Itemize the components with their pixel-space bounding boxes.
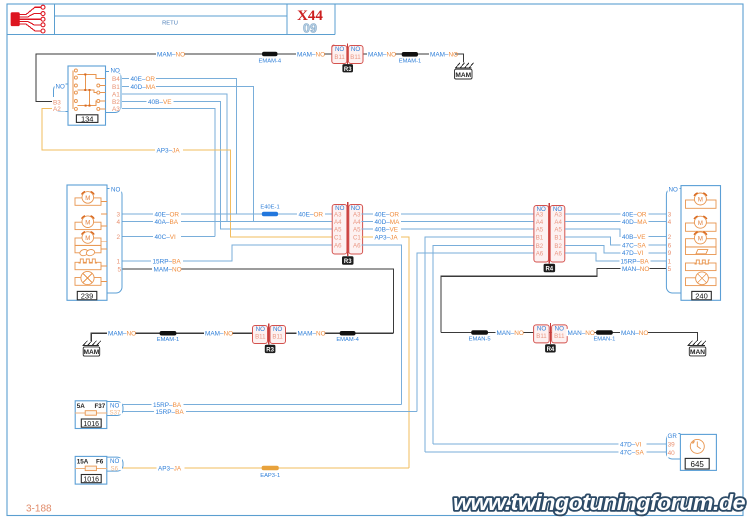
svg-text:B2: B2 bbox=[536, 243, 544, 250]
svg-text:MAM–NO: MAM–NO bbox=[108, 331, 136, 338]
svg-text:A5: A5 bbox=[334, 226, 342, 233]
wire label 47D-VI bbox=[619, 440, 647, 448]
wire net 40B from 134.B2 down to K3.A5 row bbox=[122, 102, 332, 230]
wire net 15RP K4.A6 jog to 248.1 bbox=[565, 253, 667, 261]
svg-text:5A: 5A bbox=[77, 403, 86, 410]
component 239 label bbox=[77, 291, 97, 299]
wire net 40B K4.A5 jog to 248.2 bbox=[565, 229, 667, 237]
svg-text:4: 4 bbox=[116, 219, 120, 226]
component 134 internal switch circuit bbox=[73, 69, 106, 110]
splice EMAN-1 bbox=[596, 330, 613, 335]
svg-text:1016: 1016 bbox=[83, 477, 99, 484]
svg-text:40E–OR: 40E–OR bbox=[155, 211, 180, 218]
svg-text:9: 9 bbox=[668, 250, 672, 257]
wire label MAM-NO bbox=[297, 330, 326, 338]
svg-text:EMAM-4: EMAM-4 bbox=[259, 58, 282, 64]
svg-text:15RP–BA: 15RP–BA bbox=[153, 402, 182, 409]
svg-text:B11: B11 bbox=[272, 334, 283, 341]
wire net 40E from 134.B4 down to splice row bbox=[122, 79, 237, 215]
svg-text:A4: A4 bbox=[536, 219, 544, 226]
svg-text:MAN–NO: MAN–NO bbox=[497, 330, 524, 337]
wire label AP3-JA after K3 bbox=[373, 233, 401, 241]
svg-text:15RP–BA: 15RP–BA bbox=[153, 258, 182, 265]
svg-text:40E–OR: 40E–OR bbox=[131, 76, 156, 83]
svg-text:A5: A5 bbox=[536, 226, 544, 233]
wire label AP3-JA bbox=[157, 464, 185, 472]
connector K4 (A3 A4 A5 B1 B2 A6) bbox=[534, 203, 565, 264]
svg-text:645: 645 bbox=[691, 460, 705, 469]
connector bracket NO right of 134 (pins B4 B1 A1 B2 A3) bbox=[106, 67, 122, 113]
wire net 47D K4.B2 jog to 248.9 bbox=[565, 246, 667, 253]
component 134 label bbox=[76, 115, 98, 123]
svg-text:40A–BA: 40A–BA bbox=[155, 219, 179, 226]
svg-text:R4: R4 bbox=[545, 267, 553, 273]
wire label 40E-OR after K3 bbox=[373, 210, 401, 218]
svg-text:15RP–BA: 15RP–BA bbox=[156, 409, 185, 416]
svg-text:B4: B4 bbox=[112, 76, 120, 83]
svg-text:AP3–JA: AP3–JA bbox=[157, 147, 181, 154]
connector icon R3 bottom-left bbox=[265, 345, 276, 354]
svg-text:A6: A6 bbox=[353, 242, 361, 249]
svg-text:3: 3 bbox=[116, 211, 120, 218]
component 248 motor 1 bbox=[686, 193, 717, 208]
svg-text:NO: NO bbox=[537, 326, 546, 333]
component 134 box bbox=[68, 66, 106, 125]
svg-text:NO: NO bbox=[56, 84, 65, 91]
svg-text:A3: A3 bbox=[353, 211, 361, 218]
connector bracket right of F37 (pins NO S37) bbox=[107, 402, 123, 417]
splice EMAM-1 bbox=[402, 52, 418, 57]
wire label MAN-NO bbox=[567, 329, 595, 337]
wire label MAM-NO bbox=[156, 49, 185, 59]
component 239 fan element bbox=[75, 245, 101, 256]
wire net 40C row 239.2 bbox=[122, 236, 215, 238]
component 248 thermal contact bbox=[686, 247, 717, 255]
svg-text:1: 1 bbox=[668, 258, 672, 265]
connector K3 (A3 A4 A5 C1 A6) bbox=[332, 202, 362, 256]
wire net 47D from K4.B2 down to 645 row bbox=[433, 246, 534, 445]
wire net 15RP fuse F37.S37 row bbox=[123, 411, 417, 413]
svg-text:R3: R3 bbox=[266, 348, 274, 354]
wire net 47D row to 645.39 bbox=[433, 443, 666, 445]
wire label MAM-NO bbox=[296, 49, 325, 59]
component 248 label bbox=[692, 291, 712, 299]
svg-text:47C–SA: 47C–SA bbox=[622, 242, 647, 249]
connector R3 top (B11|B11) bbox=[332, 44, 363, 65]
connector bracket left of 645 (pins GR 39 40) bbox=[666, 432, 680, 459]
svg-text:09: 09 bbox=[303, 22, 317, 36]
logo harness icon bbox=[11, 5, 45, 33]
svg-text:MAM–NO: MAM–NO bbox=[154, 266, 182, 273]
svg-text:EMAM-1: EMAM-1 bbox=[399, 58, 422, 64]
svg-text:B2: B2 bbox=[554, 243, 562, 250]
wire label 15RP-BA bbox=[151, 257, 183, 265]
svg-text:240: 240 bbox=[695, 292, 708, 301]
watermark www.twingotuningforum.de bbox=[453, 490, 745, 515]
component 645 box bbox=[680, 434, 716, 470]
wire label 40E-OR before K3 bbox=[297, 210, 325, 218]
svg-text:NO: NO bbox=[555, 326, 564, 333]
wire net 15RP from fuse F37.S37 up to K4.A6 bbox=[417, 253, 534, 412]
svg-text:M: M bbox=[85, 220, 90, 226]
svg-text:M: M bbox=[85, 196, 90, 202]
svg-text:MAM–NO: MAM–NO bbox=[297, 51, 325, 58]
wire label MAM-NO bbox=[429, 49, 458, 59]
svg-text:40D–MA: 40D–MA bbox=[375, 219, 401, 226]
wire net 15RP from K3.A6 down to fuse F37.NO row bbox=[362, 245, 402, 405]
svg-text:B1: B1 bbox=[554, 234, 562, 241]
component 239 motor 3 bbox=[75, 232, 101, 246]
wire net 40D K3 to K4 bbox=[362, 221, 534, 223]
svg-text:MAM: MAM bbox=[455, 72, 471, 79]
wire net AP3 from K3.C1 down to fuse F6 row bbox=[362, 237, 410, 468]
svg-text:A3: A3 bbox=[554, 211, 562, 218]
svg-text:A6: A6 bbox=[554, 250, 562, 257]
wire net 47C row to 645.40 bbox=[425, 451, 666, 453]
svg-text:A5: A5 bbox=[353, 226, 361, 233]
splice EMAM-4 bottom bbox=[340, 331, 356, 336]
svg-text:R3: R3 bbox=[344, 259, 352, 265]
wire label 40A-BA bbox=[153, 218, 181, 226]
svg-text:A3: A3 bbox=[536, 211, 544, 218]
wire label 40D-MA bbox=[129, 83, 156, 91]
svg-text:1: 1 bbox=[116, 258, 120, 265]
component 239 motor 2 bbox=[75, 216, 101, 230]
wire AP3 orange from 134.A2 bbox=[42, 109, 332, 238]
svg-text:B11: B11 bbox=[334, 54, 345, 61]
component 248 lamp bbox=[686, 272, 717, 286]
svg-text:NO: NO bbox=[111, 187, 120, 194]
svg-text:NO: NO bbox=[273, 326, 282, 333]
wire net 15RP row 239.1 bbox=[122, 245, 332, 261]
component 239 box bbox=[67, 185, 107, 300]
ground MAM top bbox=[455, 63, 474, 79]
wire label 40D-MA after K3 bbox=[373, 218, 401, 226]
wire label 40D-MA before 248 bbox=[621, 218, 649, 226]
wire net AP3 fuse F6 row bbox=[123, 467, 409, 469]
svg-text:47D–VI: 47D–VI bbox=[622, 250, 644, 257]
svg-text:A6: A6 bbox=[536, 250, 544, 257]
svg-text:47D–VI: 47D–VI bbox=[620, 441, 642, 448]
wire MAM bottom row bbox=[91, 333, 393, 341]
component 248 motor 3 bbox=[686, 232, 717, 247]
svg-text:S37: S37 bbox=[110, 410, 121, 417]
splice EAP3-1 bbox=[262, 466, 279, 471]
svg-text:GR: GR bbox=[668, 433, 678, 440]
connector icon R4 bottom-right bbox=[545, 344, 556, 353]
ground MAM bottom bbox=[82, 341, 101, 357]
svg-text:39: 39 bbox=[668, 442, 676, 449]
wire net 40C from 134.A3 down bbox=[122, 109, 215, 237]
wire net MAM row 239.5 bbox=[122, 269, 393, 333]
svg-text:239: 239 bbox=[81, 292, 94, 301]
svg-text:C1: C1 bbox=[353, 234, 361, 241]
svg-text:47C–SA: 47C–SA bbox=[620, 450, 645, 457]
svg-text:R4: R4 bbox=[547, 347, 555, 353]
svg-text:A1: A1 bbox=[112, 91, 120, 98]
svg-text:F6: F6 bbox=[96, 459, 104, 466]
connector bottom-right (B11|B11) bbox=[534, 323, 568, 344]
wire net MAN from 248.5 bbox=[441, 269, 666, 333]
svg-text:EAP3-1: EAP3-1 bbox=[260, 473, 280, 479]
wire label MAM-NO bbox=[152, 265, 182, 273]
svg-text:EMAM-4: EMAM-4 bbox=[336, 337, 359, 343]
svg-text:A3: A3 bbox=[334, 211, 342, 218]
wire label MAM-NO bbox=[204, 330, 233, 338]
wire label 40C-VI bbox=[153, 233, 181, 241]
wire label MAN-NO bbox=[496, 329, 524, 337]
svg-text:2: 2 bbox=[116, 234, 120, 241]
wire MAN bottom row bbox=[441, 333, 697, 342]
wire label 47D-VI before 248 bbox=[621, 249, 649, 257]
wire label 15RP-BA bbox=[154, 408, 186, 416]
svg-text:15A: 15A bbox=[77, 459, 89, 466]
fuse F6 (15A) bbox=[75, 456, 107, 484]
svg-text:S6: S6 bbox=[111, 465, 119, 472]
svg-text:M: M bbox=[698, 237, 703, 243]
component 645 clock symbol bbox=[690, 439, 704, 453]
svg-text:NO: NO bbox=[351, 46, 360, 53]
connector icon R3 under K3 bbox=[342, 256, 354, 265]
svg-text:40D–MA: 40D–MA bbox=[131, 84, 157, 91]
wire label 40E-OR bbox=[153, 210, 181, 218]
svg-text:www.twingotuningforum.de: www.twingotuningforum.de bbox=[453, 490, 745, 515]
svg-text:MAM–NO: MAM–NO bbox=[205, 331, 233, 338]
wire net 40D from 134.B1 down to K3.A4 row bbox=[122, 87, 254, 222]
svg-text:40D–MA: 40D–MA bbox=[622, 219, 648, 226]
splice EMAM-4 bbox=[262, 52, 278, 57]
wire label 40E-OR bbox=[129, 75, 156, 83]
component 248 box bbox=[681, 186, 721, 301]
svg-text:40E–OR: 40E–OR bbox=[622, 211, 647, 218]
connector bottom-left (B11|B11) bbox=[253, 324, 286, 345]
svg-text:6: 6 bbox=[668, 242, 672, 249]
wire net 40B K3 to K4 bbox=[362, 228, 534, 230]
svg-text:MAN–NO: MAN–NO bbox=[568, 330, 595, 337]
connector bracket right of F6 (pins NO S6) bbox=[107, 457, 123, 472]
wire label 40E-OR before 248 bbox=[621, 210, 649, 218]
component 248 motor 2 bbox=[686, 216, 717, 231]
wire net 15RP fuse F37.NO row bbox=[123, 404, 402, 406]
svg-text:RETU: RETU bbox=[162, 21, 178, 27]
svg-text:40B–VE: 40B–VE bbox=[622, 234, 645, 241]
wire net 40A from 134.A1 down bbox=[122, 94, 227, 222]
svg-text:40: 40 bbox=[668, 450, 676, 457]
svg-text:134: 134 bbox=[81, 114, 94, 123]
component 239 motor 1 bbox=[75, 192, 101, 206]
svg-text:B11: B11 bbox=[554, 333, 565, 340]
svg-text:40B–VE: 40B–VE bbox=[148, 99, 171, 106]
svg-text:B11: B11 bbox=[536, 333, 547, 340]
svg-text:B11: B11 bbox=[350, 54, 361, 61]
wire label MAN-NO bbox=[620, 329, 648, 337]
wire label 15RP-BA bbox=[152, 401, 184, 409]
svg-text:MAN–NO: MAN–NO bbox=[622, 266, 649, 273]
wire MAM top row bbox=[36, 54, 464, 102]
svg-text:40E–OR: 40E–OR bbox=[375, 211, 400, 218]
svg-text:NO: NO bbox=[335, 46, 344, 53]
svg-text:3-188: 3-188 bbox=[26, 504, 52, 515]
svg-text:MAM–NO: MAM–NO bbox=[298, 331, 326, 338]
connector bracket NO right of 239 (pins 3 4 2 1 5) bbox=[107, 186, 122, 293]
connector bracket NO left of 134 (pins B3 A2) bbox=[53, 83, 69, 113]
svg-text:A3: A3 bbox=[112, 106, 120, 113]
svg-text:NO: NO bbox=[111, 68, 120, 75]
svg-text:40E–OR: 40E–OR bbox=[299, 211, 324, 218]
wire label 40B-VE before 248 bbox=[621, 233, 649, 241]
svg-text:2: 2 bbox=[668, 234, 672, 241]
svg-text:NO: NO bbox=[110, 403, 119, 410]
wire label MAN-NO before 248 bbox=[621, 265, 650, 273]
svg-text:A4: A4 bbox=[353, 219, 361, 226]
wire label 40B-VE bbox=[147, 98, 174, 106]
svg-text:F37: F37 bbox=[94, 403, 105, 410]
svg-text:4: 4 bbox=[668, 219, 672, 226]
svg-text:A4: A4 bbox=[554, 219, 562, 226]
svg-text:R3: R3 bbox=[344, 67, 352, 73]
wire label MAM-NO bbox=[367, 49, 396, 59]
svg-text:5: 5 bbox=[668, 266, 672, 273]
component 239 lamp bbox=[75, 271, 101, 285]
splice EMAN-5 bbox=[471, 330, 488, 335]
svg-text:C1: C1 bbox=[334, 234, 342, 241]
component 239 resistor bbox=[75, 259, 101, 270]
wire net 40A row 239.4 to K3.A4 bbox=[122, 221, 332, 223]
svg-text:5: 5 bbox=[117, 266, 121, 273]
svg-text:B2: B2 bbox=[112, 99, 120, 106]
svg-text:15RP–BA: 15RP–BA bbox=[621, 258, 650, 265]
svg-text:A4: A4 bbox=[334, 219, 342, 226]
svg-text:40C–VI: 40C–VI bbox=[155, 234, 177, 241]
svg-text:B1: B1 bbox=[536, 234, 544, 241]
svg-text:M: M bbox=[698, 221, 703, 227]
svg-text:EMAN-1: EMAN-1 bbox=[593, 337, 615, 343]
svg-text:MAM–NO: MAM–NO bbox=[430, 51, 458, 58]
svg-text:AP3–JA: AP3–JA bbox=[158, 465, 182, 472]
wire net 40D K4 to 248.4 bbox=[565, 221, 667, 223]
connector bracket NO left of 248 (pins 3 4 2 6 9 1 5) bbox=[666, 186, 681, 293]
wire label 47C-SA bbox=[619, 449, 647, 457]
svg-text:MAM: MAM bbox=[84, 349, 100, 356]
wire net 47C K4.B1 jog to 248.6 bbox=[565, 237, 667, 245]
ground MAN bottom bbox=[688, 341, 707, 356]
fuse F37 (5A) bbox=[75, 401, 107, 429]
wire label MAM-NO bbox=[107, 330, 136, 338]
svg-text:MAM–NO: MAM–NO bbox=[157, 51, 185, 58]
component 248 resistor bbox=[686, 260, 717, 271]
svg-text:M: M bbox=[698, 198, 703, 204]
wire label 47C-SA before 248 bbox=[621, 241, 649, 249]
wire label AP3-JA bbox=[155, 146, 183, 154]
svg-text:40B–VE: 40B–VE bbox=[375, 226, 398, 233]
svg-text:NO: NO bbox=[669, 187, 678, 194]
wire net 40E K3 to K4 bbox=[362, 213, 534, 215]
splice E40E-1 bbox=[262, 212, 278, 217]
svg-text:A2: A2 bbox=[53, 106, 61, 113]
svg-text:NO: NO bbox=[110, 458, 119, 465]
wire label 40B-VE after K3 bbox=[373, 225, 401, 233]
svg-text:B1: B1 bbox=[112, 84, 120, 91]
wire net 47C from K4.B1 down to 645 row bbox=[425, 237, 534, 452]
wire label 15RP-BA before 248 bbox=[620, 257, 651, 265]
svg-text:EMAN-5: EMAN-5 bbox=[469, 337, 491, 343]
wire net 40E K4 to 248.3 bbox=[565, 213, 667, 215]
connector icon R4 under K4 bbox=[544, 264, 556, 273]
svg-text:A5: A5 bbox=[554, 226, 562, 233]
svg-text:1016: 1016 bbox=[83, 421, 99, 428]
component 239 internal stubs bbox=[101, 202, 107, 282]
svg-text:M: M bbox=[85, 236, 90, 242]
wire net 40E row 239.3 to K3.A3 bbox=[122, 213, 332, 215]
svg-text:A6: A6 bbox=[334, 242, 342, 249]
connector icon R3 top bbox=[342, 64, 353, 73]
svg-text:MAM–NO: MAM–NO bbox=[368, 51, 396, 58]
svg-text:E40E-1: E40E-1 bbox=[260, 205, 279, 211]
svg-text:MAN–NO: MAN–NO bbox=[621, 330, 648, 337]
splice EMAM-1 bottom bbox=[160, 331, 177, 336]
component 645 label bbox=[685, 458, 709, 469]
svg-text:B11: B11 bbox=[255, 334, 266, 341]
svg-text:NO: NO bbox=[256, 326, 265, 333]
svg-text:3: 3 bbox=[668, 211, 672, 218]
svg-text:EMAM-1: EMAM-1 bbox=[157, 337, 180, 343]
svg-text:AP3–JA: AP3–JA bbox=[375, 234, 399, 241]
svg-text:MAN: MAN bbox=[690, 349, 705, 356]
